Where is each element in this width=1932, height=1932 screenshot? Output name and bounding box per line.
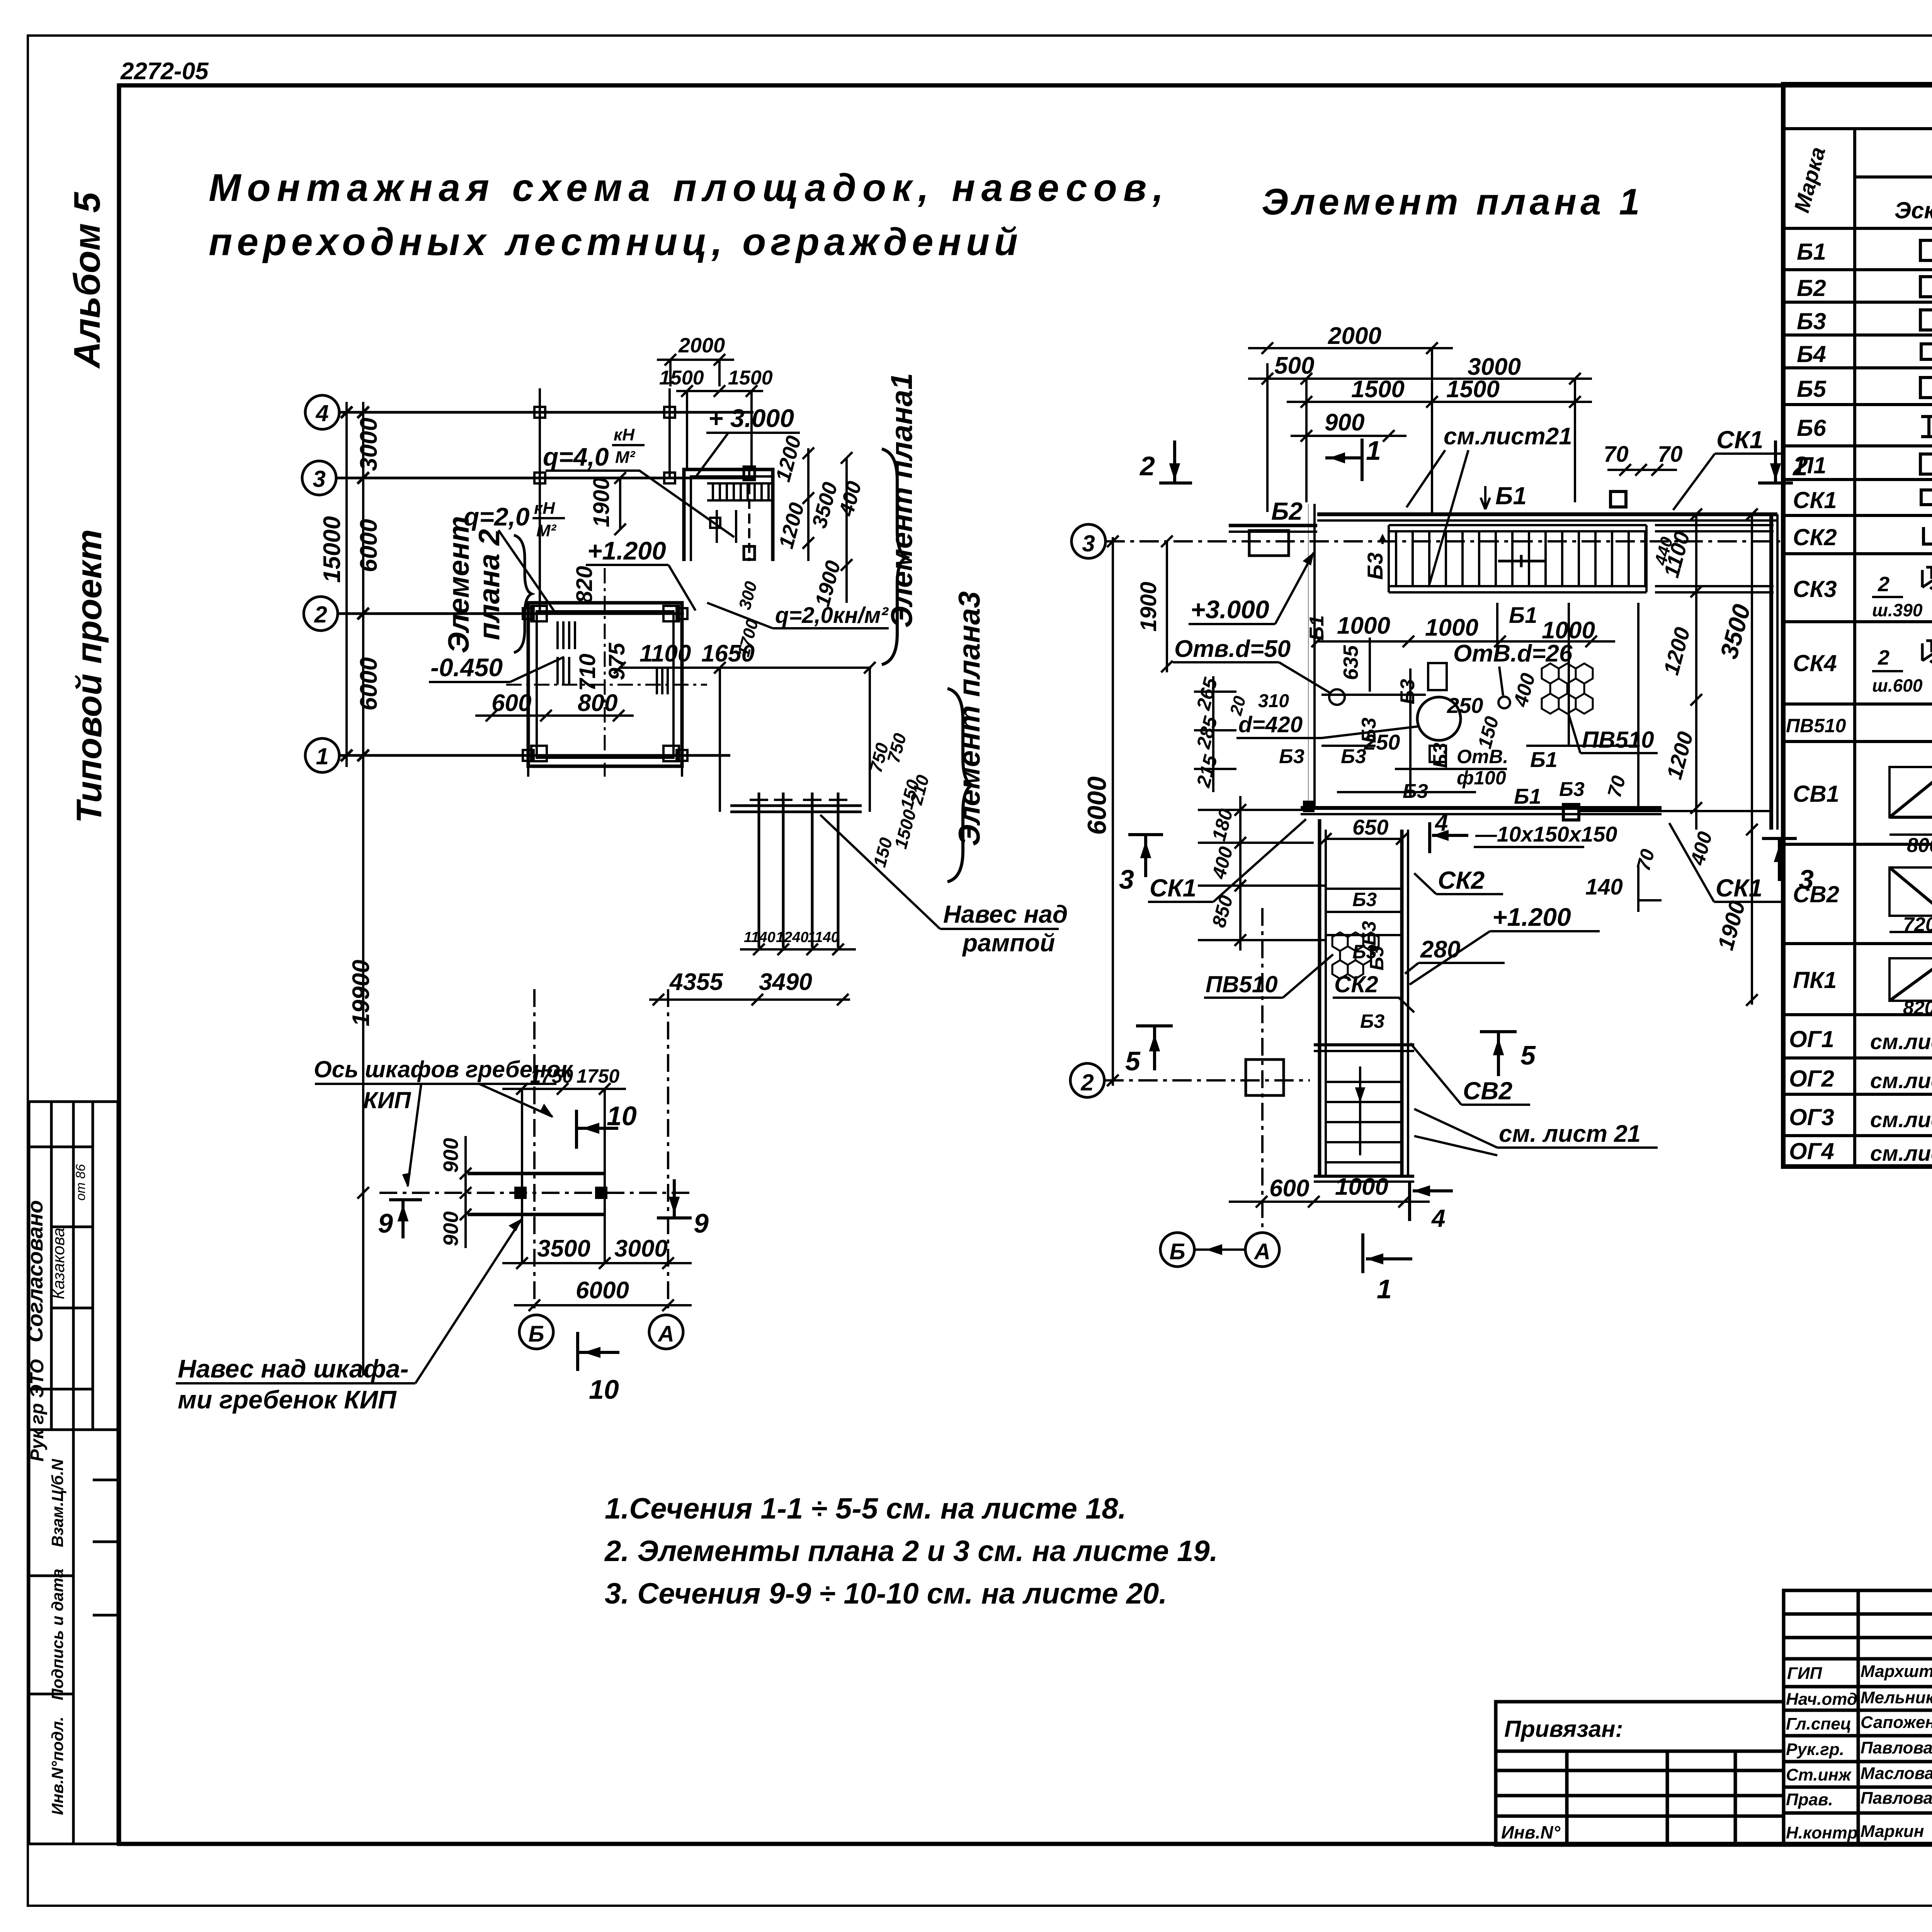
svg-text:500: 500 <box>1274 352 1314 379</box>
svg-text:2: 2 <box>1139 451 1155 481</box>
svg-text:9: 9 <box>694 1208 709 1238</box>
svg-text:Мельников: Мельников <box>1861 1688 1932 1707</box>
vertical dim chain line (3000/6000/6000) <box>347 402 363 767</box>
grid bubble А central <box>1245 1233 1279 1267</box>
svg-text:Б: Б <box>528 1321 544 1347</box>
svg-text:1100: 1100 <box>639 640 691 667</box>
svg-text:9: 9 <box>378 1208 393 1238</box>
svg-text:2272-05: 2272-05 <box>120 58 209 85</box>
svg-text:КИП: КИП <box>363 1087 412 1113</box>
svg-text:800: 800 <box>578 690 617 716</box>
grid bubble 4 <box>305 395 339 429</box>
svg-text:4: 4 <box>1435 810 1448 836</box>
TABLE ROWS <box>1786 239 1932 1166</box>
svg-text:Н.контр: Н.контр <box>1786 1823 1858 1842</box>
svg-text:2: 2 <box>1878 646 1889 669</box>
grid bubble Б central <box>1160 1233 1194 1267</box>
svg-text:+1.200: +1.200 <box>1492 903 1571 931</box>
svg-text:Павлова: Павлова <box>1861 1738 1932 1757</box>
extension line from 500 tick <box>1266 363 1269 512</box>
axis 2 dash-dot <box>1104 1079 1310 1082</box>
svg-text:3500: 3500 <box>537 1235 590 1262</box>
svg-text:3000: 3000 <box>614 1235 668 1262</box>
svg-text:1.Сечения 1-1 ÷ 5-5 см. на: 1.Сечения 1-1 ÷ 5-5 см. на листе 18. <box>605 1492 1126 1525</box>
leader from q=4,0 <box>546 471 734 537</box>
landing edge double line <box>1314 1045 1414 1051</box>
Привязан table <box>1496 1702 1784 1845</box>
svg-text:Подпись и дата: Подпись и дата <box>48 1569 66 1700</box>
svg-text:3: 3 <box>313 466 325 492</box>
svg-text:q=2,0: q=2,0 <box>464 502 530 531</box>
corner joint square <box>1303 801 1315 812</box>
lower-left plan columns <box>515 1089 606 1264</box>
svg-text:от 86: от 86 <box>73 1164 88 1201</box>
svg-text:Казакова: Казакова <box>49 1228 68 1299</box>
svg-text:650: 650 <box>1352 815 1388 839</box>
svg-text:Ось шкафов гребенок: Ось шкафов гребенок <box>314 1056 573 1082</box>
svg-text:Б5: Б5 <box>1797 376 1827 402</box>
svg-text:Б3: Б3 <box>1341 745 1366 768</box>
svg-text:10: 10 <box>589 1374 619 1405</box>
svg-text:М²: М² <box>536 521 557 540</box>
svg-text:Нач.отд: Нач.отд <box>1786 1690 1857 1709</box>
main platform top beam Б1 <box>1317 514 1777 520</box>
section mark 3 left <box>1128 835 1163 877</box>
svg-text:СК2: СК2 <box>1438 866 1485 894</box>
svg-text:см. лист 21: см. лист 21 <box>1499 1121 1641 1147</box>
lower-left small plan: axis dash-dot lines <box>379 989 692 1315</box>
svg-text:1500: 1500 <box>1351 376 1405 403</box>
svg-text:1900: 1900 <box>589 477 614 527</box>
svg-text:М²: М² <box>615 448 636 467</box>
grid bubble Б <box>519 1315 553 1349</box>
svg-text:Б4: Б4 <box>1797 341 1826 367</box>
svg-text:Согласовано: Согласовано <box>23 1200 47 1342</box>
svg-text:5: 5 <box>1520 1040 1536 1070</box>
grid bubble 2 <box>304 597 338 631</box>
leader from q=2,0 to building <box>498 530 556 614</box>
dim ticks on chains <box>341 406 369 761</box>
svg-text:3: 3 <box>1119 864 1134 895</box>
svg-text:Прав.: Прав. <box>1786 1790 1833 1809</box>
svg-text:кН: кН <box>534 499 555 518</box>
svg-text:Маслова: Маслова <box>1861 1764 1932 1783</box>
А axis dash-dot vertical <box>1261 908 1264 1233</box>
svg-text:2: 2 <box>314 602 327 628</box>
svg-text:1000: 1000 <box>1425 614 1478 641</box>
svg-text:СК2: СК2 <box>1334 971 1378 997</box>
section mark 10 top <box>577 1110 618 1149</box>
grid bubble А <box>649 1315 683 1349</box>
svg-text:Б2: Б2 <box>1271 497 1303 525</box>
svg-text:кН: кН <box>614 425 635 444</box>
svg-text:Взам.Ц/б.N: Взам.Ц/б.N <box>48 1458 66 1547</box>
svg-text:250: 250 <box>1447 693 1483 718</box>
svg-text:Б6: Б6 <box>1797 415 1826 441</box>
svg-text:Элемент плана 1: Элемент плана 1 <box>1262 181 1643 223</box>
svg-text:1140: 1140 <box>744 929 776 946</box>
grid bubble 3 <box>302 461 336 495</box>
svg-text:19900: 19900 <box>348 960 374 1026</box>
lower stair left rail <box>1320 819 1326 1175</box>
svg-text:900: 900 <box>439 1138 463 1173</box>
svg-text:4355: 4355 <box>669 969 723 995</box>
svg-text:ГИП: ГИП <box>1787 1664 1823 1683</box>
svg-text:820: 820 <box>572 566 597 604</box>
svg-text:Ст.инж: Ст.инж <box>1786 1765 1852 1784</box>
svg-text:Привязан:: Привязан: <box>1504 1716 1623 1742</box>
hex grating patch lower <box>1332 932 1379 979</box>
svg-text:Монтажная схема площадок, на: Монтажная схема площадок, навесов, <box>209 166 1170 209</box>
svg-text:1500: 1500 <box>659 367 704 389</box>
hex grating patch upper right <box>1542 663 1593 714</box>
section mark 3 right <box>1762 838 1797 881</box>
svg-text:3. Сечения 9-9 ÷ 10-10 см.: 3. Сечения 9-9 ÷ 10-10 см. на листе 20. <box>605 1577 1167 1610</box>
svg-text:4: 4 <box>1431 1204 1446 1232</box>
svg-text:1900: 1900 <box>1136 582 1161 631</box>
ladder stair top flight <box>1389 525 1774 592</box>
svg-text:Б1: Б1 <box>1797 239 1826 265</box>
svg-text:1240: 1240 <box>776 929 809 946</box>
section mark 2 left <box>1159 440 1192 483</box>
section mark 1 bottom <box>1363 1233 1412 1273</box>
svg-text:720: 720 <box>1903 913 1932 936</box>
svg-text:ПК1: ПК1 <box>1793 967 1837 993</box>
svg-text:5: 5 <box>1125 1046 1141 1076</box>
svg-text:1140: 1140 <box>808 929 839 946</box>
svg-text:710: 710 <box>575 654 600 691</box>
link between Б and А <box>1194 1246 1245 1253</box>
svg-text:140: 140 <box>1585 874 1623 900</box>
svg-text:Б3: Б3 <box>1352 889 1377 910</box>
svg-text:СК1: СК1 <box>1150 874 1196 902</box>
svg-text:Б3: Б3 <box>1429 743 1452 768</box>
svg-text:10: 10 <box>607 1101 637 1131</box>
section mark 10 bottom <box>578 1332 619 1371</box>
svg-text:переходных лестниц, ограждени: переходных лестниц, ограждений <box>209 220 1022 264</box>
section mark 4 top <box>1430 822 1468 853</box>
svg-text:ПВ510: ПВ510 <box>1206 971 1278 997</box>
svg-text:см.лист 21: см.лист 21 <box>1870 1068 1932 1093</box>
svg-text:+1.200: +1.200 <box>587 536 666 565</box>
svg-text:1: 1 <box>1377 1274 1392 1304</box>
Б2 node box <box>1249 531 1289 556</box>
svg-text:2000: 2000 <box>1328 323 1381 349</box>
svg-text:310: 310 <box>1258 691 1289 711</box>
svg-text:ми гребенок КИП: ми гребенок КИП <box>178 1385 397 1414</box>
lower stair right rail <box>1402 830 1408 1175</box>
column axis verticals <box>528 388 682 777</box>
building element plan 2 outline <box>528 603 682 766</box>
svg-text:280: 280 <box>1420 936 1460 963</box>
section mark 2 right <box>1758 440 1793 483</box>
svg-text:Маркин: Маркин <box>1861 1822 1924 1841</box>
svg-text:4: 4 <box>315 400 328 426</box>
svg-text:1: 1 <box>1366 435 1381 466</box>
svg-text:СК1: СК1 <box>1793 487 1837 513</box>
svg-text:ОГ1: ОГ1 <box>1789 1026 1834 1052</box>
svg-text:-0.450: -0.450 <box>430 653 503 682</box>
building corner columns <box>531 606 679 761</box>
svg-text:Б1: Б1 <box>1530 747 1558 772</box>
section mark 4 bottom <box>1410 1182 1453 1221</box>
svg-text:Б1: Б1 <box>1514 784 1541 808</box>
svg-text:СК1: СК1 <box>1716 874 1762 902</box>
grid bubble 1 <box>305 738 339 772</box>
left dim chain 6000 <box>1107 536 1119 1086</box>
svg-text:см.лист21: см.лист21 <box>1444 423 1572 450</box>
svg-text:q=4,0: q=4,0 <box>543 442 609 471</box>
svg-text:СК1: СК1 <box>1716 426 1763 454</box>
svg-text:—10х150х150: —10х150х150 <box>1475 822 1617 846</box>
svg-text:СВ1: СВ1 <box>1793 781 1839 807</box>
svg-text:975: 975 <box>604 643 629 680</box>
svg-text:Рук гр ЭТО: Рук гр ЭТО <box>27 1359 48 1461</box>
svg-text:3000: 3000 <box>355 418 382 471</box>
svg-text:1750: 1750 <box>577 1065 619 1087</box>
svg-text:Элемент: Элемент <box>442 516 475 653</box>
small plates <box>1428 663 1447 690</box>
hole circle d50 <box>1329 689 1345 705</box>
svg-text:2: 2 <box>1080 1070 1094 1095</box>
svg-text:Элемент плана1: Элемент плана1 <box>884 373 918 628</box>
left wall vertical <box>1308 504 1315 808</box>
svg-text:3490: 3490 <box>759 969 812 995</box>
svg-text:800: 800 <box>1907 834 1932 857</box>
svg-text:600: 600 <box>492 690 531 716</box>
svg-text:Элемент плана3: Элемент плана3 <box>952 591 986 846</box>
svg-text:6000: 6000 <box>355 519 382 572</box>
signature rows <box>1786 1660 1932 1842</box>
horizontal structure lines mid-platform <box>1321 603 1638 808</box>
ladder rails in block <box>707 467 773 561</box>
svg-text:Б2: Б2 <box>1797 275 1826 301</box>
approval stamp grid bottom left <box>29 1102 118 1844</box>
axis line 4 <box>339 411 753 414</box>
svg-text:СВ2: СВ2 <box>1793 881 1839 907</box>
svg-text:А: А <box>657 1321 674 1347</box>
svg-text:Б1: Б1 <box>1306 615 1328 641</box>
svg-text:6000: 6000 <box>576 1277 629 1304</box>
svg-text:Альбом 5: Альбом 5 <box>66 192 108 369</box>
stair hatch marks inside building <box>558 621 668 694</box>
lower-left plan beams <box>468 1173 605 1214</box>
svg-text:рампой: рампой <box>962 929 1055 957</box>
right outer chain 3500 / 1900 <box>1746 509 1758 1006</box>
grid bubble 3 central <box>1071 524 1105 558</box>
svg-text:СК3: СК3 <box>1793 576 1837 602</box>
svg-text:1000: 1000 <box>1337 612 1390 639</box>
svg-text:Эскиз: Эскиз <box>1895 197 1932 223</box>
axis 2 box <box>1246 1060 1284 1095</box>
svg-text:Б3: Б3 <box>1363 553 1387 580</box>
svg-text:ф100: ф100 <box>1457 767 1506 789</box>
svg-text:Отв.d=50: Отв.d=50 <box>1174 636 1291 662</box>
svg-text:см.лист 21: см.лист 21 <box>1870 1029 1932 1054</box>
svg-text:СК2: СК2 <box>1793 524 1837 550</box>
svg-text:d=420: d=420 <box>1238 712 1303 737</box>
big hole circle ф100 <box>1417 697 1461 740</box>
vertical 19900 chain continuation <box>357 767 369 1376</box>
svg-text:ОтВ.: ОтВ. <box>1457 746 1508 767</box>
svg-text:Инв.N°: Инв.N° <box>1501 1822 1561 1842</box>
svg-text:q=2,0кн/м²: q=2,0кн/м² <box>775 603 889 628</box>
svg-text:Б3: Б3 <box>1559 778 1585 801</box>
svg-text:2. Элементы плана 2 и 3 с: 2. Элементы плана 2 и 3 см. на листе 19. <box>604 1535 1218 1568</box>
svg-text:А: А <box>1253 1239 1270 1264</box>
svg-text:Б1: Б1 <box>1509 603 1537 628</box>
section mark 5 left <box>1136 1026 1173 1070</box>
section mark 9 right <box>657 1179 692 1218</box>
svg-text:см.лист 21: см.лист 21 <box>1870 1107 1932 1132</box>
svg-text:П1: П1 <box>1797 452 1827 478</box>
axis line 3 <box>336 477 753 480</box>
svg-text:Гл.спец: Гл.спец <box>1786 1714 1851 1733</box>
axis line 2 <box>338 612 684 615</box>
svg-text:1500: 1500 <box>1446 376 1500 403</box>
svg-text:плана 2: плана 2 <box>473 529 506 640</box>
svg-text:Б1: Б1 <box>1495 482 1527 510</box>
svg-text:1500: 1500 <box>728 367 773 389</box>
svg-text:3: 3 <box>1082 531 1095 556</box>
svg-text:2000: 2000 <box>678 334 725 357</box>
svg-text:Типовой проект: Типовой проект <box>70 529 109 823</box>
svg-text:70: 70 <box>1604 442 1629 467</box>
brace for Элемент плана 2 <box>514 535 532 653</box>
svg-text:ш.390: ш.390 <box>1872 600 1923 620</box>
svg-text:900: 900 <box>1325 409 1364 436</box>
svg-text:Инв.N°подл.: Инв.N°подл. <box>48 1717 66 1815</box>
axis line 1 <box>339 754 730 757</box>
axis junction squares <box>523 407 687 761</box>
small stair steps upper <box>1326 889 1402 935</box>
svg-text:1000: 1000 <box>1335 1173 1388 1200</box>
svg-text:Мархштедер: Мархштедер <box>1861 1662 1932 1681</box>
right inner dim chain 1100/1200/1200 <box>1690 509 1702 830</box>
svg-text:600: 600 <box>1269 1175 1309 1202</box>
svg-text:Б3: Б3 <box>1396 679 1419 704</box>
svg-text:70: 70 <box>1658 442 1683 467</box>
svg-text:ОтВ.d=26: ОтВ.d=26 <box>1453 640 1573 667</box>
elements list table grid <box>1783 84 1932 1167</box>
svg-text:+3.000: +3.000 <box>1190 595 1269 624</box>
svg-text:Б3: Б3 <box>1360 1010 1384 1032</box>
canopy over ramp structure <box>730 793 862 948</box>
right wall verticals <box>1771 514 1777 830</box>
svg-text:Навес над: Навес над <box>943 900 1068 928</box>
title block grid <box>1784 1590 1932 1845</box>
СК1 column squares bottom right <box>1563 804 1579 820</box>
dim 1900 left <box>1161 536 1173 672</box>
Б2 beam top left <box>1229 526 1317 532</box>
svg-text:ПВ510: ПВ510 <box>1582 727 1654 753</box>
svg-text:Б: Б <box>1169 1239 1185 1264</box>
bottom wall of upper platform <box>1301 808 1771 814</box>
lower flight rungs <box>1314 1066 1414 1182</box>
svg-text:820: 820 <box>1903 997 1932 1019</box>
svg-text:ОГ4: ОГ4 <box>1789 1138 1834 1164</box>
building internal axes dash-dot <box>604 568 606 777</box>
svg-text:Павлова: Павлова <box>1861 1789 1932 1808</box>
svg-text:900: 900 <box>439 1211 463 1246</box>
svg-text:6000: 6000 <box>1082 776 1112 835</box>
section mark 5 right <box>1480 1032 1517 1076</box>
hole circle d26 <box>1498 697 1510 708</box>
small dim lines 215/285/265 <box>1194 676 1236 792</box>
svg-text:2: 2 <box>1878 573 1889 596</box>
svg-text:см.лист 21: см.лист 21 <box>1870 1141 1932 1165</box>
svg-text:1: 1 <box>316 743 328 769</box>
section mark 9 left <box>389 1200 422 1238</box>
svg-text:250: 250 <box>1364 730 1400 754</box>
svg-text:ОГ2: ОГ2 <box>1789 1066 1834 1092</box>
svg-text:Б3: Б3 <box>1279 745 1304 768</box>
svg-text:ш.600: ш.600 <box>1872 675 1923 696</box>
svg-text:ПВ510: ПВ510 <box>1786 715 1846 736</box>
svg-text:6000: 6000 <box>355 657 382 711</box>
svg-text:Навес над шкафа-: Навес над шкафа- <box>178 1354 409 1383</box>
grid bubble 2 central <box>1070 1063 1104 1097</box>
svg-text:СК4: СК4 <box>1793 650 1837 676</box>
svg-text:15000: 15000 <box>319 516 345 583</box>
svg-text:635: 635 <box>1339 645 1362 680</box>
svg-text:СВ2: СВ2 <box>1463 1077 1512 1105</box>
section mark 1 top <box>1325 439 1362 481</box>
upper stair block (element plan 3 ref) <box>684 469 773 561</box>
svg-text:Б3: Б3 <box>1797 308 1826 334</box>
svg-text:ОГ3: ОГ3 <box>1789 1104 1834 1130</box>
svg-text:Сапоженкова: Сапоженкова <box>1861 1713 1932 1732</box>
axis 3 dash-dot <box>1105 540 1781 543</box>
svg-text:Рук.гр.: Рук.гр. <box>1786 1740 1844 1759</box>
